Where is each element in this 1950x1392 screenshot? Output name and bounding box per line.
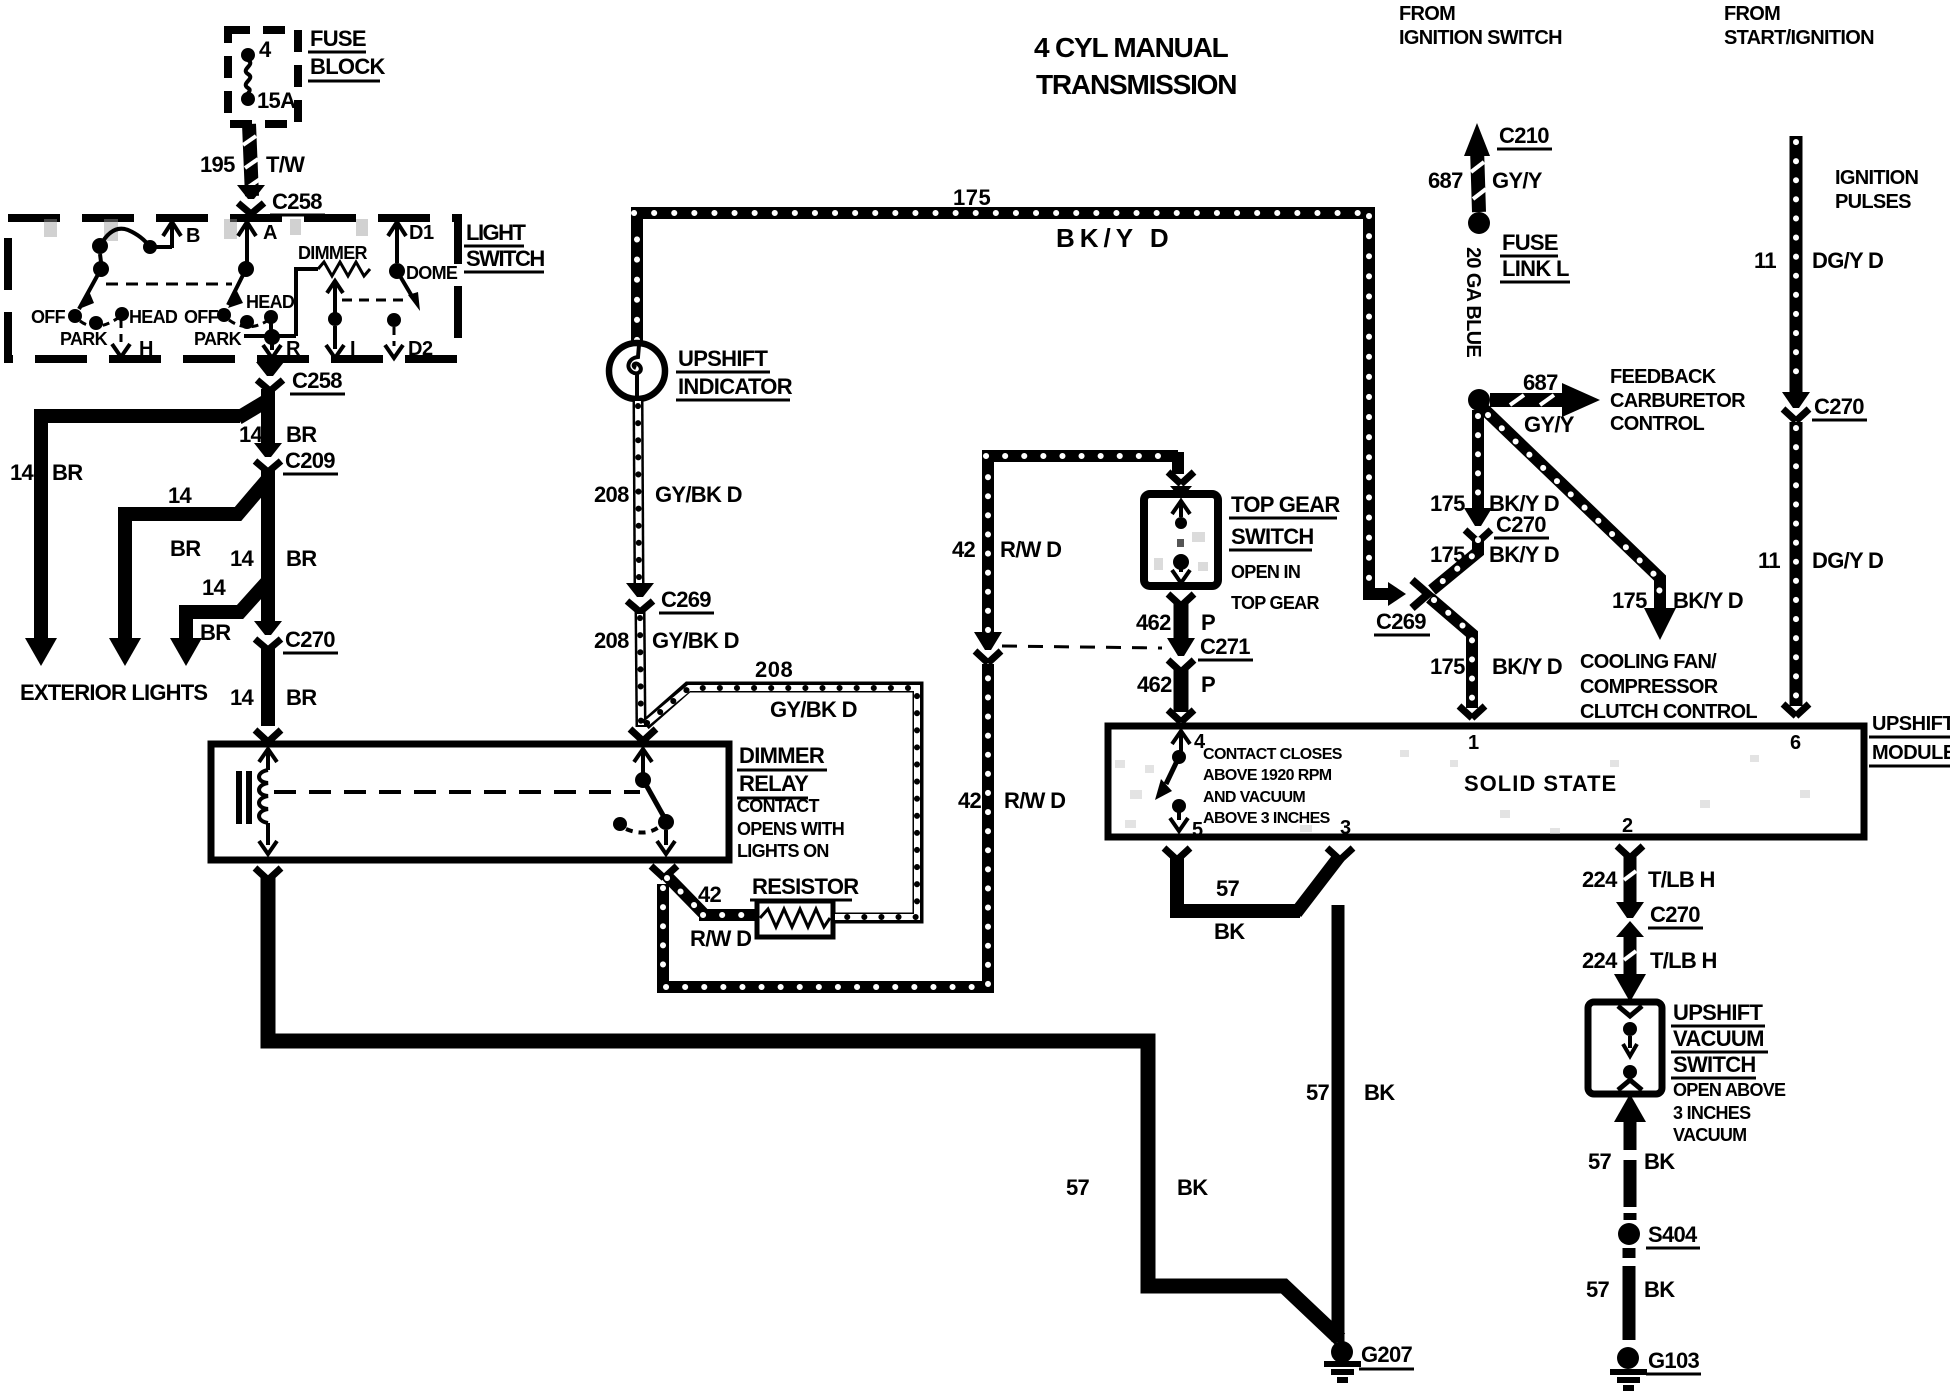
svg-text:OFF: OFF xyxy=(184,307,219,327)
connector C269 junction xyxy=(1388,582,1406,606)
svg-text:57: 57 xyxy=(1066,1175,1090,1200)
svg-text:SOLID STATE: SOLID STATE xyxy=(1464,771,1617,796)
svg-text:C269: C269 xyxy=(1376,609,1426,634)
connector module pin 3 xyxy=(1327,848,1353,860)
connector module pin 1 xyxy=(1459,706,1485,718)
connector module pin 6 xyxy=(1783,704,1809,716)
svg-text:C258: C258 xyxy=(292,368,342,393)
wire 14 BR main below C209 xyxy=(261,468,275,630)
svg-text:P: P xyxy=(1201,672,1215,697)
svg-text:4: 4 xyxy=(259,37,272,62)
svg-text:B: B xyxy=(186,225,200,247)
svg-text:H: H xyxy=(139,338,153,360)
contact PARK middle xyxy=(240,315,254,329)
svg-text:BK: BK xyxy=(1177,1175,1208,1200)
ground G207 xyxy=(1331,1341,1353,1363)
svg-text:208: 208 xyxy=(594,628,629,653)
svg-text:687: 687 xyxy=(1523,370,1558,395)
svg-text:FUSE: FUSE xyxy=(1502,230,1558,255)
svg-text:I: I xyxy=(350,338,355,360)
connector module pin 4 xyxy=(1168,710,1194,722)
connector C270 on 11 wire xyxy=(1782,392,1810,408)
connector C269 on 208 wire xyxy=(626,583,654,612)
svg-text:D2: D2 xyxy=(408,338,433,360)
svg-text:57: 57 xyxy=(1588,1149,1612,1174)
svg-text:IGNITION: IGNITION xyxy=(1835,167,1919,189)
svg-text:PULSES: PULSES xyxy=(1835,191,1911,213)
svg-text:11: 11 xyxy=(1754,248,1776,273)
wire 14 BR into dimmer relay xyxy=(261,646,275,726)
svg-text:D1: D1 xyxy=(409,222,434,244)
svg-text:PARK: PARK xyxy=(60,329,108,349)
svg-text:MODULE: MODULE xyxy=(1872,742,1950,764)
dimmer relay contact rest dot and dashed throw xyxy=(613,817,627,831)
svg-text:GY/Y: GY/Y xyxy=(1492,168,1543,193)
connector C270 left xyxy=(254,621,282,650)
svg-text:BK/Y D: BK/Y D xyxy=(1673,588,1743,613)
connector C271 xyxy=(1167,638,1195,656)
svg-text:FEEDBACK: FEEDBACK xyxy=(1610,366,1717,388)
wire 224 T/LB H pin2 to C270 (striped) xyxy=(1624,854,1637,902)
terminal B arrow xyxy=(163,222,181,248)
svg-text:A: A xyxy=(263,222,277,244)
ground G103 xyxy=(1617,1347,1639,1369)
fuse 15A (element inside fuse block) xyxy=(241,48,255,62)
svg-text:R: R xyxy=(286,338,301,360)
wire 175 BK/Y D C269 to module pin 1 (dotted) xyxy=(1430,598,1472,708)
wire 57 BK vacuum switch to S404 xyxy=(1614,1094,1646,1122)
svg-text:UPSHIFT: UPSHIFT xyxy=(678,346,768,371)
dashed link to C271 xyxy=(1002,646,1162,648)
wire 208 GY/BK D resistor loop (hollow dotted) xyxy=(645,687,918,918)
svg-text:BK: BK xyxy=(1214,919,1245,944)
detent dashed arc left xyxy=(80,318,118,326)
wire 175 BK/Y D C270 to C269 (dotted) xyxy=(1432,538,1478,590)
svg-text:UPSHIFT: UPSHIFT xyxy=(1872,713,1950,735)
svg-text:2: 2 xyxy=(1622,815,1633,837)
svg-text:LINK L: LINK L xyxy=(1502,256,1569,281)
svg-text:175: 175 xyxy=(1612,588,1647,613)
wire 14 BR branch 2 to exterior lights xyxy=(125,480,267,640)
svg-text:208: 208 xyxy=(594,482,629,507)
dashed gang line left-middle xyxy=(106,283,232,286)
svg-text:BR: BR xyxy=(170,536,201,561)
svg-text:BLOCK: BLOCK xyxy=(310,54,386,79)
svg-text:T/LB H: T/LB H xyxy=(1650,948,1717,973)
svg-text:SWITCH: SWITCH xyxy=(1673,1052,1756,1077)
svg-text:CONTROL: CONTROL xyxy=(1610,413,1704,435)
light switch box xyxy=(8,218,458,359)
svg-text:G207: G207 xyxy=(1361,1342,1412,1367)
scan smudges on box top edge xyxy=(44,219,368,241)
dimmer relay core bars xyxy=(236,771,242,824)
svg-text:3: 3 xyxy=(1340,817,1351,839)
svg-text:AND VACUUM: AND VACUUM xyxy=(1203,789,1305,806)
svg-text:42: 42 xyxy=(958,788,982,813)
svg-text:4 CYL MANUAL: 4 CYL MANUAL xyxy=(1034,32,1229,63)
svg-text:175: 175 xyxy=(1430,542,1465,567)
svg-text:ABOVE 3 INCHES: ABOVE 3 INCHES xyxy=(1203,810,1331,827)
resistor zigzag xyxy=(760,909,830,927)
svg-text:BK/Y D: BK/Y D xyxy=(1492,654,1562,679)
svg-text:TOP GEAR: TOP GEAR xyxy=(1231,492,1340,517)
wire 462 P C271 to module pin 4 xyxy=(1174,668,1189,712)
svg-text:BR: BR xyxy=(52,460,83,485)
wire BK dimmer relay to G207 xyxy=(268,876,1340,1339)
dashed gang line dimmer-dome xyxy=(342,299,406,302)
dimmer relay contact fixed side xyxy=(634,749,652,773)
svg-text:BK/Y D: BK/Y D xyxy=(1489,542,1559,567)
wire 175 BK/Y D fuse link to C270 (dotted) xyxy=(1472,410,1484,508)
svg-text:C270: C270 xyxy=(1496,512,1546,537)
svg-text:LIGHTS ON: LIGHTS ON xyxy=(737,841,829,861)
dimmer relay coil xyxy=(259,770,268,823)
connector C258 top xyxy=(237,185,265,214)
svg-text:20 GA BLUE: 20 GA BLUE xyxy=(1462,247,1484,357)
svg-text:175: 175 xyxy=(1430,491,1465,516)
svg-text:14: 14 xyxy=(202,575,227,600)
svg-text:42: 42 xyxy=(698,882,722,907)
wire 57 BK S404 to G103 xyxy=(1623,1248,1636,1340)
svg-text:T/LB H: T/LB H xyxy=(1648,867,1715,892)
svg-text:S404: S404 xyxy=(1648,1222,1698,1247)
svg-text:OPEN IN: OPEN IN xyxy=(1231,562,1300,582)
svg-text:57: 57 xyxy=(1306,1080,1330,1105)
wire 57 BK pin3 to G207 xyxy=(1332,905,1345,1342)
svg-text:462: 462 xyxy=(1137,672,1172,697)
wire 42 R/W D dimmer to resistor (dotted) xyxy=(665,874,757,915)
svg-text:DG/Y D: DG/Y D xyxy=(1812,548,1883,573)
svg-text:SWITCH: SWITCH xyxy=(466,246,544,271)
svg-text:11: 11 xyxy=(1758,548,1780,573)
wire 208 GY/BK D C269 to dimmer relay (hollow dotted) xyxy=(640,608,641,727)
svg-text:5: 5 xyxy=(1192,819,1203,841)
svg-text:BK/Y D: BK/Y D xyxy=(1056,223,1174,253)
vacuum switch contacts xyxy=(1618,1006,1642,1016)
connector into top gear switch xyxy=(1168,472,1194,484)
wire 42 R/W D upper (dotted) xyxy=(982,452,1178,634)
svg-text:14: 14 xyxy=(230,685,255,710)
svg-text:PARK: PARK xyxy=(194,329,242,349)
svg-text:57: 57 xyxy=(1586,1277,1610,1302)
svg-text:42: 42 xyxy=(952,537,976,562)
svg-text:BK: BK xyxy=(1644,1277,1675,1302)
wire 195 T/W fuse block to C258 (striped) xyxy=(249,124,252,196)
connector C209 xyxy=(254,443,282,472)
wire 208 GY/BK D indicator to C269 (hollow dotted) xyxy=(638,399,639,585)
svg-text:GY/Y: GY/Y xyxy=(1524,412,1575,437)
svg-text:CLUTCH CONTROL: CLUTCH CONTROL xyxy=(1580,701,1757,723)
wire 175 BK/Y D diagonal to cooling fan (dotted) xyxy=(1484,409,1660,608)
wire 687 GY/Y to feedback carburetor control (striped arrow) xyxy=(1490,393,1562,407)
svg-text:G103: G103 xyxy=(1648,1348,1699,1373)
wire 224 T/LB H C270 to vacuum switch (striped) xyxy=(1624,933,1637,976)
svg-text:C258: C258 xyxy=(272,189,322,214)
contact HEAD middle xyxy=(264,310,278,324)
svg-text:UPSHIFT: UPSHIFT xyxy=(1673,1000,1763,1025)
svg-text:14: 14 xyxy=(230,546,255,571)
svg-text:C210: C210 xyxy=(1499,123,1549,148)
wire 14 BR main vertical from C258 xyxy=(261,389,275,452)
svg-text:14: 14 xyxy=(168,483,193,508)
dimmer rheostat zigzag xyxy=(318,262,370,276)
svg-text:14: 14 xyxy=(10,460,35,485)
svg-text:HEAD: HEAD xyxy=(246,292,295,312)
resistor box xyxy=(757,901,833,937)
dome wiper arm xyxy=(397,271,413,298)
svg-text:GY/BK D: GY/BK D xyxy=(655,482,742,507)
svg-text:LIGHT: LIGHT xyxy=(466,220,527,245)
svg-text:BK: BK xyxy=(1644,1149,1675,1174)
connector below dimmer relay contact xyxy=(651,866,677,878)
svg-text:C209: C209 xyxy=(285,448,335,473)
svg-text:OPEN ABOVE: OPEN ABOVE xyxy=(1673,1080,1786,1100)
dimmer relay coil exit arrow xyxy=(259,823,277,854)
svg-text:DIMMER: DIMMER xyxy=(298,243,367,263)
svg-text:C270: C270 xyxy=(1814,394,1864,419)
svg-text:OFF: OFF xyxy=(31,307,66,327)
connector below top gear switch xyxy=(1168,594,1194,606)
svg-text:EXTERIOR LIGHTS: EXTERIOR LIGHTS xyxy=(20,680,207,705)
node DOME xyxy=(389,263,405,279)
middle wiper arm to OFF xyxy=(238,261,254,277)
upshift indicator lamp xyxy=(609,343,665,399)
connector C270 mid xyxy=(1464,508,1492,526)
wire 11 DG/Y D lower (dotted) xyxy=(1790,422,1803,706)
svg-text:C271: C271 xyxy=(1200,634,1250,659)
terminal A arrow xyxy=(238,222,256,262)
svg-text:224: 224 xyxy=(1582,948,1618,973)
wire 462 P top gear to C271 xyxy=(1174,602,1189,638)
svg-text:GY/BK D: GY/BK D xyxy=(652,628,739,653)
svg-text:6: 6 xyxy=(1790,732,1801,754)
connector C258 bottom xyxy=(256,362,284,391)
contact PARK left xyxy=(89,316,103,330)
svg-text:ABOVE 1920 RPM: ABOVE 1920 RPM xyxy=(1203,767,1332,784)
wire 42 R/W D lower loop (dotted) xyxy=(657,664,988,993)
contact HEAD left xyxy=(115,307,129,321)
svg-text:DIMMER: DIMMER xyxy=(739,743,825,768)
node B bar and wiper hump xyxy=(100,229,172,247)
svg-text:RESISTOR: RESISTOR xyxy=(752,874,859,899)
dimmer relay dashed link xyxy=(274,790,640,794)
svg-text:T/W: T/W xyxy=(266,152,305,177)
svg-text:BR: BR xyxy=(200,620,231,645)
svg-text:GY/BK D: GY/BK D xyxy=(770,697,857,722)
svg-text:DG/Y D: DG/Y D xyxy=(1812,248,1883,273)
node D2 xyxy=(387,313,401,327)
splice S404 xyxy=(1618,1223,1640,1245)
svg-text:BR: BR xyxy=(286,685,317,710)
svg-text:FROM: FROM xyxy=(1399,3,1455,25)
top gear switch contacts xyxy=(1172,501,1190,517)
svg-text:BR: BR xyxy=(286,422,317,447)
svg-text:TOP GEAR: TOP GEAR xyxy=(1231,593,1319,613)
dimmer relay contact arm xyxy=(645,783,664,817)
contact OFF middle xyxy=(217,308,231,322)
connector C210 arrow xyxy=(1464,123,1490,156)
connector module pin 2 xyxy=(1617,846,1643,858)
fuse block box xyxy=(228,30,298,124)
connector C271 on 42 wire xyxy=(975,651,1001,663)
svg-text:195: 195 xyxy=(200,152,235,177)
detent dashed arc middle xyxy=(229,320,267,327)
svg-text:C270: C270 xyxy=(1650,902,1700,927)
connector module pin 5 xyxy=(1164,848,1190,860)
terminal R arrow xyxy=(263,343,281,358)
dimmer relay contact exit arrow xyxy=(657,830,675,854)
svg-text:VACUUM: VACUUM xyxy=(1673,1026,1764,1051)
svg-text:15A: 15A xyxy=(257,88,296,113)
connector C270 on 224 wire xyxy=(1616,902,1644,918)
wire 687 GY/Y C210 to fuse link (striped) xyxy=(1477,148,1479,212)
connector below dimmer relay coil xyxy=(255,868,281,880)
wire 14 BR branch 3 to exterior lights xyxy=(186,582,267,640)
connector into dimmer relay top right xyxy=(630,729,656,741)
svg-text:INDICATOR: INDICATOR xyxy=(678,374,793,399)
contact OFF left xyxy=(68,309,82,323)
svg-text:COMPRESSOR: COMPRESSOR xyxy=(1580,676,1719,698)
svg-text:C269: C269 xyxy=(661,587,711,612)
upshift vacuum switch box xyxy=(1588,1002,1662,1094)
svg-text:CONTACT: CONTACT xyxy=(737,796,819,816)
svg-text:P: P xyxy=(1201,610,1215,635)
node I xyxy=(328,312,342,326)
svg-text:COOLING FAN/: COOLING FAN/ xyxy=(1580,651,1717,673)
top gear switch speckle xyxy=(1154,532,1208,571)
svg-text:VACUUM: VACUUM xyxy=(1673,1125,1746,1145)
svg-text:1: 1 xyxy=(1468,732,1479,754)
svg-text:R/W D: R/W D xyxy=(690,926,751,951)
svg-text:RELAY: RELAY xyxy=(739,771,809,796)
svg-text:175: 175 xyxy=(953,185,991,210)
splice 687 junction xyxy=(1468,389,1490,411)
svg-text:R/W D: R/W D xyxy=(1000,537,1061,562)
svg-text:224: 224 xyxy=(1582,867,1618,892)
svg-text:OPENS WITH: OPENS WITH xyxy=(737,819,844,839)
module interior speckle xyxy=(1115,750,1810,834)
terminal H with arrow xyxy=(120,320,123,346)
svg-text:57: 57 xyxy=(1216,876,1240,901)
dimmer relay box xyxy=(211,744,729,860)
dimmer relay coil entry arrow xyxy=(259,749,277,770)
svg-text:CARBURETOR: CARBURETOR xyxy=(1610,390,1746,412)
dimmer wiper arrow xyxy=(327,281,343,313)
svg-text:FROM: FROM xyxy=(1724,3,1780,25)
svg-text:IGNITION SWITCH: IGNITION SWITCH xyxy=(1399,27,1562,49)
svg-text:3 INCHES: 3 INCHES xyxy=(1673,1103,1751,1123)
svg-text:BK: BK xyxy=(1364,1080,1395,1105)
wire 11 DG/Y D upper (dotted) xyxy=(1790,136,1803,392)
splice fuse link L xyxy=(1468,212,1490,234)
top gear switch box xyxy=(1144,494,1218,586)
svg-text:HEAD: HEAD xyxy=(129,307,178,327)
svg-text:START/IGNITION: START/IGNITION xyxy=(1724,27,1874,49)
svg-text:SWITCH: SWITCH xyxy=(1231,524,1314,549)
svg-text:687: 687 xyxy=(1428,168,1463,193)
svg-text:FUSE: FUSE xyxy=(310,26,366,51)
wire 57 BK pin5 to pin3 xyxy=(1177,856,1300,911)
svg-text:C270: C270 xyxy=(285,627,335,652)
svg-text:R/W D: R/W D xyxy=(1004,788,1065,813)
terminal D1 arrow xyxy=(388,222,406,263)
svg-text:175: 175 xyxy=(1430,654,1465,679)
node R bar xyxy=(244,269,318,336)
left wiper arm to OFF xyxy=(93,261,109,277)
svg-text:208: 208 xyxy=(755,657,793,682)
wire 175 BK/Y D main run xyxy=(631,207,1390,594)
svg-text:BR: BR xyxy=(286,546,317,571)
svg-text:DOME: DOME xyxy=(406,263,458,283)
svg-text:TRANSMISSION: TRANSMISSION xyxy=(1036,69,1236,100)
svg-text:CONTACT CLOSES: CONTACT CLOSES xyxy=(1203,746,1343,763)
wire 14 BR branch 1 to exterior lights xyxy=(41,400,268,640)
svg-text:462: 462 xyxy=(1136,610,1171,635)
upshift module box xyxy=(1108,726,1864,837)
module internal rpm contact xyxy=(1172,731,1190,751)
